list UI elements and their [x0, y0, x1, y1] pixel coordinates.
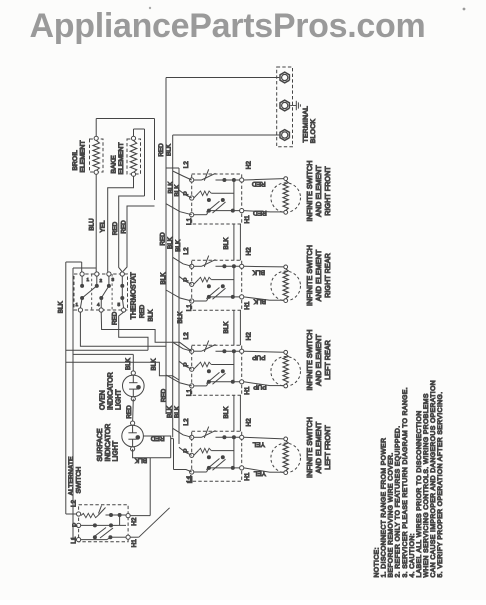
svg-text:BLOCK: BLOCK	[310, 119, 317, 144]
svg-text:BROIL: BROIL	[72, 150, 79, 171]
svg-text:INDICATOR: INDICATOR	[105, 424, 112, 462]
svg-text:WHEN SERVICING CONTROLS. WIRIN: WHEN SERVICING CONTROLS. WIRING PROBLEMS	[423, 393, 430, 577]
svg-text:5. VERIFY PROPER OPERATION AFT: 5. VERIFY PROPER OPERATION AFTER SERVICI…	[437, 391, 444, 577]
svg-text:ALTERNATE: ALTERNATE	[68, 456, 75, 495]
svg-text:BLK: BLK	[147, 309, 154, 322]
svg-text:RED: RED	[159, 232, 166, 246]
svg-text:L2: L2	[183, 418, 190, 426]
svg-text:BLK: BLK	[167, 405, 174, 418]
svg-text:1: 1	[76, 302, 79, 307]
svg-text:L1: L1	[186, 389, 193, 397]
svg-text:RED: RED	[139, 304, 146, 318]
svg-text:OVEN: OVEN	[99, 390, 106, 410]
svg-text:YEL: YEL	[253, 469, 266, 476]
svg-text:BLK: BLK	[150, 358, 157, 371]
svg-text:INFINITE SWITCH: INFINITE SWITCH	[305, 417, 314, 478]
svg-text:LEFT FRONT: LEFT FRONT	[323, 425, 332, 470]
svg-text:PUP: PUP	[252, 354, 265, 361]
svg-text:RED: RED	[253, 209, 267, 216]
svg-text:3. SERVICER PLEASE RETURN DIAG: 3. SERVICER PLEASE RETURN DIAGRAM TO RAN…	[402, 387, 409, 578]
svg-text:TERMINAL: TERMINAL	[302, 106, 309, 143]
svg-text:ELEMENT: ELEMENT	[80, 140, 87, 172]
svg-text:L2: L2	[183, 332, 190, 340]
svg-text:P: P	[72, 523, 79, 527]
svg-text:BLU: BLU	[89, 218, 96, 231]
svg-text:RED: RED	[121, 220, 128, 234]
svg-text:2. REFER ONLY TO FEATURES EQUI: 2. REFER ONLY TO FEATURES EQUIPPED.	[395, 426, 402, 578]
svg-text:3: 3	[112, 277, 115, 282]
svg-text:BLK: BLK	[174, 184, 181, 197]
svg-text:H1: H1	[244, 472, 251, 481]
svg-text:AND ELEMENT: AND ELEMENT	[314, 334, 323, 386]
svg-text:ELEMENT: ELEMENT	[118, 142, 125, 174]
svg-text:L2: L2	[183, 161, 190, 169]
svg-text:AND ELEMENT: AND ELEMENT	[314, 421, 323, 473]
svg-text:RED: RED	[112, 311, 119, 325]
svg-text:CAN CAUSE IMPROPER AND DANGERO: CAN CAUSE IMPROPER AND DANGEROUS OPERATI…	[430, 380, 437, 578]
svg-text:LABEL ALL WIRES PRIOR TO DISCO: LABEL ALL WIRES PRIOR TO DISCONNECTION	[416, 410, 423, 577]
svg-text:L2: L2	[183, 247, 190, 255]
svg-text:RED: RED	[252, 180, 266, 187]
svg-text:BEFORE REMOVING WIRE COVER.: BEFORE REMOVING WIRE COVER.	[388, 452, 395, 577]
svg-text:1. DISCONNECT RANGE FROM POWER: 1. DISCONNECT RANGE FROM POWER	[381, 438, 388, 578]
svg-text:BLK: BLK	[160, 272, 167, 285]
svg-text:H1: H1	[244, 215, 251, 224]
svg-text:BLK: BLK	[177, 311, 184, 324]
svg-text:L2: L2	[71, 500, 78, 508]
svg-text:L1: L1	[186, 304, 193, 312]
svg-text:BLK: BLK	[166, 143, 173, 156]
svg-text:BLK: BLK	[223, 237, 230, 250]
svg-text:H2: H2	[245, 161, 252, 170]
svg-text:BLK: BLK	[58, 301, 65, 314]
svg-text:BLK: BLK	[223, 321, 230, 334]
svg-text:L1: L1	[187, 476, 194, 484]
svg-text:4: 4	[97, 302, 100, 307]
svg-text:1: 1	[87, 277, 90, 282]
svg-text:SWITCH: SWITCH	[76, 467, 83, 494]
svg-text:AppliancePartsPros.com: AppliancePartsPros.com	[30, 7, 426, 45]
svg-text:H2: H2	[245, 418, 252, 427]
svg-text:BLK: BLK	[253, 297, 266, 304]
svg-text:INFINITE SWITCH: INFINITE SWITCH	[305, 160, 314, 221]
svg-text:YEL: YEL	[252, 440, 265, 447]
svg-text:H1: H1	[244, 301, 251, 310]
svg-text:BLK: BLK	[174, 405, 181, 418]
svg-text:H1: H1	[131, 539, 138, 548]
svg-text:BLK: BLK	[125, 357, 132, 370]
svg-text:H2: H2	[245, 247, 252, 256]
svg-text:NOTICE:: NOTICE:	[374, 547, 381, 577]
svg-text:RIGHT FRONT: RIGHT FRONT	[323, 166, 332, 216]
svg-text:LEFT REAR: LEFT REAR	[323, 340, 332, 380]
svg-text:L1: L1	[186, 217, 193, 225]
svg-text:RIGHT REAR: RIGHT REAR	[323, 253, 332, 298]
svg-text:PUP: PUP	[253, 383, 266, 390]
svg-text:BLK: BLK	[134, 457, 147, 464]
svg-text:RED: RED	[112, 221, 119, 235]
svg-text:THERMOSTAT: THERMOSTAT	[131, 271, 138, 319]
svg-text:H2: H2	[131, 517, 138, 526]
svg-text:RED: RED	[161, 388, 168, 402]
svg-text:LIGHT: LIGHT	[115, 389, 122, 410]
svg-text:INDICATOR: INDICATOR	[107, 372, 114, 410]
svg-text:H1: H1	[244, 386, 251, 395]
svg-text:BLK: BLK	[223, 406, 230, 419]
svg-text:5: 5	[118, 302, 121, 307]
svg-text:BAKE: BAKE	[110, 155, 117, 174]
svg-text:INFINITE SWITCH: INFINITE SWITCH	[305, 329, 314, 390]
svg-text:2: 2	[100, 278, 103, 283]
svg-text:LIGHT: LIGHT	[113, 440, 120, 461]
svg-text:RED: RED	[158, 143, 165, 157]
svg-text:AND ELEMENT: AND ELEMENT	[314, 165, 323, 217]
svg-text:BLK: BLK	[252, 268, 265, 275]
svg-text:RED: RED	[151, 435, 165, 442]
svg-text:YEL: YEL	[100, 220, 107, 232]
svg-text:BLK: BLK	[167, 236, 174, 249]
svg-text:INFINITE SWITCH: INFINITE SWITCH	[305, 245, 314, 306]
svg-text:RED: RED	[126, 405, 133, 419]
svg-text:SURFACE: SURFACE	[97, 428, 104, 461]
svg-text:4. CAUTION:: 4. CAUTION:	[409, 533, 416, 577]
svg-text:AND ELEMENT: AND ELEMENT	[314, 249, 323, 301]
svg-text:H2: H2	[245, 332, 252, 341]
svg-text:BLK: BLK	[175, 239, 182, 252]
